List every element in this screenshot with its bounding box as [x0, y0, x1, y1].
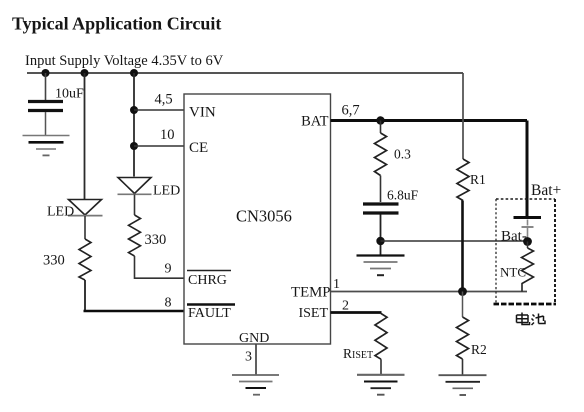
title	[12, 14, 221, 34]
wire: node to R2	[462, 292, 464, 318]
svg-text:8: 8	[165, 296, 172, 311]
svg-text:6,7: 6,7	[342, 103, 360, 119]
node: TEMP/R1/R2 junction	[458, 287, 467, 296]
wire: C1 top lead	[45, 73, 47, 100]
svg-text:R1: R1	[470, 172, 486, 187]
svg-text:CN3056: CN3056	[236, 207, 292, 226]
battery cell dashed outline	[494, 199, 557, 305]
ground under 10uF	[23, 136, 70, 156]
capacitor 10uF	[28, 87, 84, 111]
wire: RISET to ground	[380, 359, 382, 375]
svg-text:10uF: 10uF	[55, 87, 84, 102]
svg-text:Bat-: Bat-	[501, 229, 527, 245]
svg-text:R2: R2	[471, 342, 487, 357]
wire: BAT to R5	[380, 121, 382, 134]
svg-text:330: 330	[43, 253, 65, 269]
ground under GND pin	[232, 375, 279, 395]
battery BT1 positive plate	[514, 216, 542, 219]
wire: TEMP line	[331, 291, 528, 293]
svg-text:Input Supply Voltage 4.35V to: Input Supply Voltage 4.35V to 6V	[25, 53, 224, 69]
svg-text:GND: GND	[239, 331, 269, 346]
label: battery (Chinese) 电	[517, 313, 530, 325]
svg-text:ISET: ISET	[298, 306, 328, 321]
svg-text:330: 330	[145, 232, 167, 248]
svg-text:CE: CE	[189, 140, 208, 156]
wire: battery negative lead	[527, 220, 529, 240]
wire: LED2 cathode to R4	[134, 195, 136, 216]
svg-text:Typical Application Circuit: Typical Application Circuit	[12, 14, 221, 34]
resistor 330 (left)	[43, 239, 91, 280]
wire: supply rail down to R1	[462, 73, 464, 159]
svg-text:CHRG: CHRG	[188, 273, 227, 288]
wire: R3 bottom to FAULT pin	[84, 280, 86, 311]
wire: VIN pin stub	[134, 109, 184, 111]
wire: CE pin stub	[134, 145, 184, 147]
wire: mid branch down from supply	[133, 73, 135, 177]
node: supply/VIN junction	[130, 69, 138, 77]
label: battery (Chinese) 池	[532, 314, 546, 326]
node: CE junction	[130, 142, 138, 150]
node: VIN junction	[130, 106, 138, 114]
svg-text:NTC: NTC	[500, 265, 526, 280]
wire: LED1 cathode to R3	[84, 216, 86, 239]
node: supply/C1 junction	[42, 69, 50, 77]
svg-text:10: 10	[160, 127, 175, 143]
thermistor NTC	[500, 248, 534, 292]
svg-text:LED: LED	[153, 184, 180, 199]
ground under R2	[439, 375, 487, 395]
wire: BAT rail (thick)	[331, 119, 528, 122]
ground under RISET	[357, 375, 405, 395]
resistor 330 (right)	[129, 215, 167, 256]
node: C2/Bat- junction	[376, 237, 384, 245]
wire: R4 bottom to CHRG pin	[134, 256, 184, 278]
LED D2 (right)	[118, 178, 181, 199]
wire: C2 bottom to ground node	[380, 215, 382, 256]
wire: GND pin down	[255, 344, 257, 375]
resistor 0.3	[375, 133, 412, 176]
wire: R1 bottom to TEMP node	[461, 201, 464, 293]
svg-text:4,5: 4,5	[155, 92, 173, 108]
wire: C1 bottom lead	[45, 112, 47, 135]
net label: Input Supply Voltage	[25, 53, 224, 69]
node: Bat-/NTC junction	[523, 237, 532, 246]
svg-text:3: 3	[245, 350, 252, 365]
svg-text:BAT: BAT	[301, 114, 329, 130]
wire: supply rail	[27, 72, 463, 74]
svg-text:9: 9	[165, 262, 172, 277]
wire: R5 to C2	[380, 176, 382, 203]
wire: ISET pin to RISET (thick)	[331, 311, 382, 314]
node: supply/LED1 junction	[81, 69, 89, 77]
IC U1 CN3056	[184, 94, 331, 344]
svg-text:FAULT: FAULT	[188, 306, 231, 321]
resistor R2	[457, 317, 487, 359]
svg-text:2: 2	[342, 299, 349, 314]
svg-text:TEMP: TEMP	[291, 285, 330, 301]
pin label CHRG (active low)	[187, 271, 231, 289]
svg-text:Bat+: Bat+	[531, 182, 561, 199]
wire: node to NTC	[527, 242, 529, 249]
battery BT1 negative plate	[522, 226, 534, 228]
svg-text:1: 1	[333, 277, 340, 292]
wire: Bat- line to battery	[381, 240, 528, 242]
svg-text:0.3: 0.3	[394, 147, 411, 162]
LED D1 (left)	[47, 200, 103, 220]
svg-text:6.8uF: 6.8uF	[387, 188, 419, 203]
capacitor 6.8uF	[363, 188, 419, 214]
resistor R1	[457, 159, 486, 201]
wire: R2 to ground	[462, 359, 464, 375]
resistor RISET	[343, 314, 387, 362]
node: BAT/R5 junction	[376, 116, 384, 124]
svg-text:VIN: VIN	[189, 105, 216, 121]
wire: left branch down to LED1	[84, 73, 86, 200]
wire: BAT rail down to battery (thick)	[526, 121, 529, 217]
ground under 6.8uF	[357, 256, 405, 276]
svg-text:LED: LED	[47, 205, 74, 220]
pin label FAULT (active low)	[187, 305, 235, 322]
